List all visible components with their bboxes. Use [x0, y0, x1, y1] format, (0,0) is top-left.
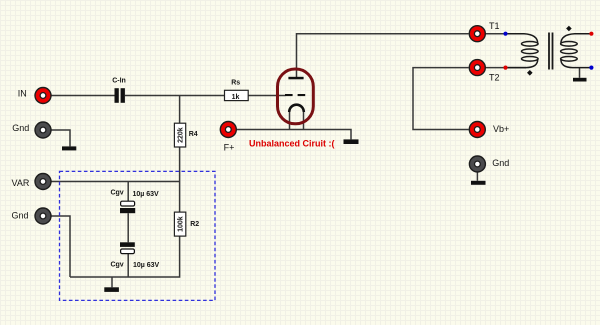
svg-text:220k: 220k — [178, 127, 185, 143]
svg-text:VAR: VAR — [12, 178, 30, 188]
svg-text:T2: T2 — [489, 72, 500, 82]
svg-text:T1: T1 — [489, 21, 500, 31]
svg-text:Gnd: Gnd — [12, 211, 29, 221]
svg-text:Cgv: Cgv — [110, 262, 123, 269]
svg-text:R4: R4 — [189, 131, 198, 138]
svg-text:Unbalanced Ciruit :(: Unbalanced Ciruit :( — [249, 138, 335, 148]
svg-text:Vb+: Vb+ — [493, 124, 509, 134]
svg-text:10µ 63V: 10µ 63V — [133, 191, 160, 198]
svg-text:100k: 100k — [178, 216, 185, 232]
svg-text:C-In: C-In — [112, 77, 126, 84]
svg-text:Cgv: Cgv — [110, 190, 123, 197]
svg-text:10µ 63V: 10µ 63V — [133, 262, 160, 269]
svg-text:IN: IN — [18, 88, 27, 98]
svg-text:R2: R2 — [190, 221, 199, 228]
svg-text:Gnd: Gnd — [12, 123, 29, 133]
svg-text:Gnd: Gnd — [492, 158, 509, 168]
svg-text:F+: F+ — [224, 142, 235, 152]
svg-text:Rs: Rs — [231, 80, 240, 87]
svg-text:1k: 1k — [232, 94, 240, 101]
